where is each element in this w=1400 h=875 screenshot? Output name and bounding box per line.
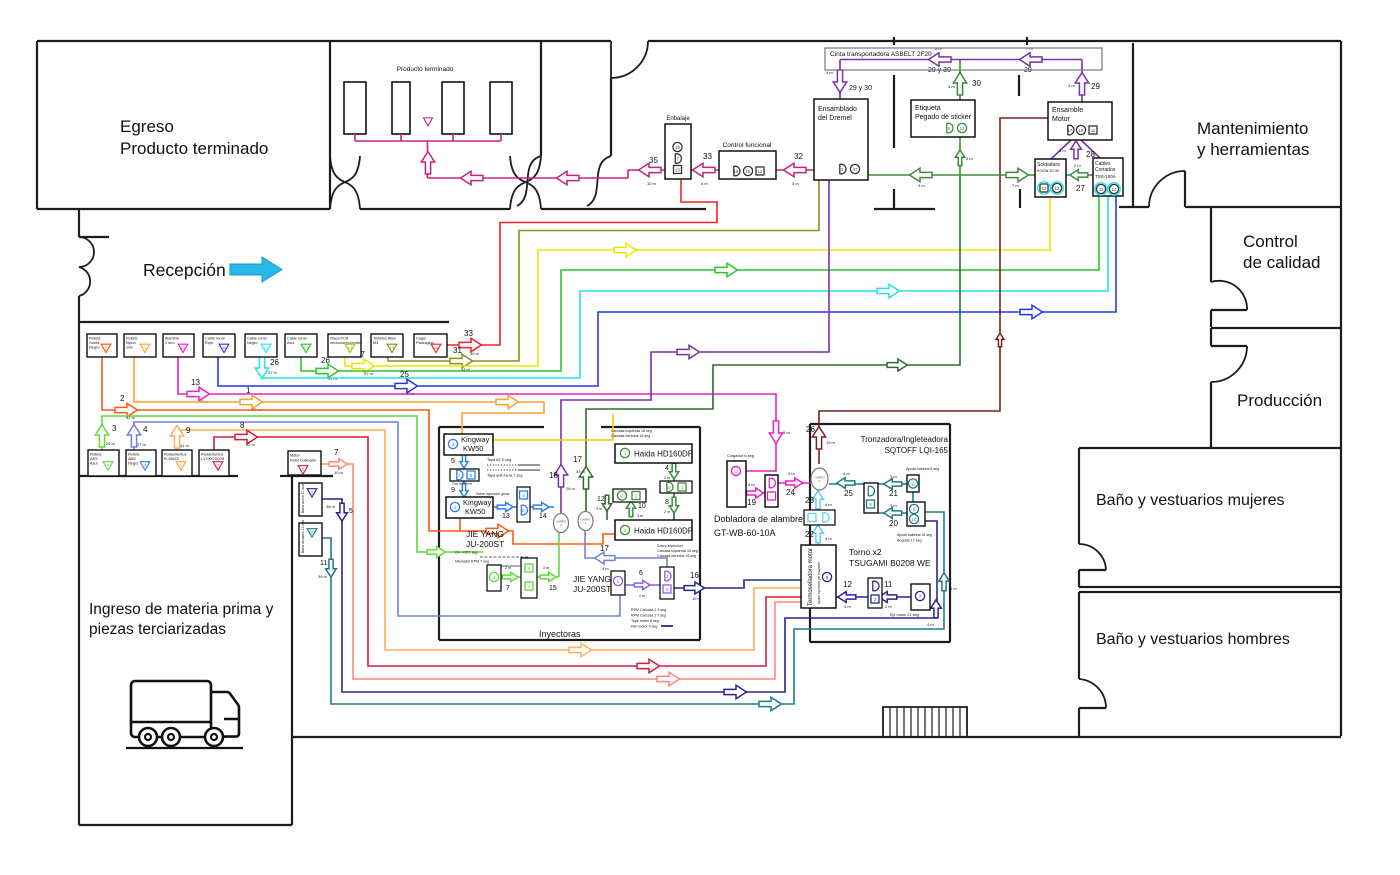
svg-text:Cajas: Cajas xyxy=(416,337,426,341)
svg-text:R-156ZZ: R-156ZZ xyxy=(164,457,180,461)
svg-text:26 m: 26 m xyxy=(566,486,576,491)
svg-text:4 m: 4 m xyxy=(927,622,934,627)
svg-text:Azul: Azul xyxy=(287,341,295,345)
svg-text:Control: Control xyxy=(1243,232,1298,251)
svg-text:Alambre: Alambre xyxy=(165,337,179,341)
svg-text:4 m: 4 m xyxy=(825,502,832,507)
svg-text:Carcasa derecha 18 seg: Carcasa derecha 18 seg xyxy=(611,434,650,438)
svg-text:Enbalaje: Enbalaje xyxy=(666,116,690,122)
svg-text:8: 8 xyxy=(665,499,669,506)
svg-text:19 m: 19 m xyxy=(826,440,836,445)
svg-text:7 m: 7 m xyxy=(1012,183,1019,188)
svg-text:10: 10 xyxy=(912,517,917,522)
svg-text:4 m: 4 m xyxy=(602,566,609,571)
svg-text:Barra acero 10 mm: Barra acero 10 mm xyxy=(301,484,305,513)
svg-text:On - Off 7 seg: On - Off 7 seg xyxy=(455,551,478,555)
svg-text:10 m: 10 m xyxy=(692,596,702,601)
svg-text:2 m: 2 m xyxy=(664,510,670,514)
svg-text:32: 32 xyxy=(794,152,803,161)
svg-text:1 mm: 1 mm xyxy=(165,341,175,345)
svg-text:16: 16 xyxy=(690,571,699,580)
svg-text:Ingreso de materia prima y: Ingreso de materia prima y xyxy=(89,601,274,618)
svg-text:Barra aluminio 12 mm: Barra aluminio 12 mm xyxy=(301,520,305,553)
svg-text:Cinta transportadora ASBELT 2F: Cinta transportadora ASBELT 2F20 xyxy=(830,51,932,58)
svg-text:38 m: 38 m xyxy=(326,504,336,509)
svg-text:Tapa 6Z 9 seg: Tapa 6Z 9 seg xyxy=(487,458,511,462)
svg-text:Sobre inyeccion goma: Sobre inyeccion goma xyxy=(476,492,510,496)
svg-text:M3: M3 xyxy=(373,341,378,345)
svg-text:Rodamientos: Rodamientos xyxy=(201,453,223,457)
svg-text:17: 17 xyxy=(600,544,609,553)
svg-text:25: 25 xyxy=(844,489,853,498)
svg-text:Negro: Negro xyxy=(128,462,138,466)
svg-text:27 m: 27 m xyxy=(137,442,147,447)
svg-text:Pellets: Pellets xyxy=(128,453,139,457)
svg-text:Tornillos Allen: Tornillos Allen xyxy=(373,337,396,341)
svg-text:Pan motor 9 seg: Pan motor 9 seg xyxy=(631,625,657,629)
svg-text:16: 16 xyxy=(434,345,439,350)
svg-text:Pellets: Pellets xyxy=(90,453,101,457)
svg-text:6 m: 6 m xyxy=(950,586,957,591)
svg-text:Egreso: Egreso xyxy=(120,117,174,136)
svg-text:Placa PCB: Placa PCB xyxy=(330,337,349,341)
svg-text:TSS-100A: TSS-100A xyxy=(1095,174,1116,179)
svg-text:L1790OSO28: L1790OSO28 xyxy=(201,457,224,461)
svg-text:2: 2 xyxy=(120,394,125,403)
svg-text:Cortados: Cortados xyxy=(1095,167,1116,173)
svg-text:Recepción: Recepción xyxy=(143,260,226,280)
svg-text:Nylon: Nylon xyxy=(126,341,136,345)
svg-text:14: 14 xyxy=(539,513,547,520)
svg-text:RPM Carcasa 1 9 seg: RPM Carcasa 1 9 seg xyxy=(631,608,666,612)
svg-text:Producción: Producción xyxy=(1237,391,1322,410)
svg-text:14: 14 xyxy=(1112,187,1117,192)
svg-text:4 m: 4 m xyxy=(918,183,925,188)
svg-text:24: 24 xyxy=(786,488,795,497)
svg-text:RPM Carcasa 2 7 seg: RPM Carcasa 2 7 seg xyxy=(631,614,666,618)
svg-text:11: 11 xyxy=(1091,128,1096,133)
svg-text:Torno x2: Torno x2 xyxy=(849,547,882,557)
svg-text:10: 10 xyxy=(181,345,186,350)
svg-text:13: 13 xyxy=(304,345,309,350)
svg-text:21: 21 xyxy=(889,489,898,498)
svg-text:Cable ronal: Cable ronal xyxy=(247,337,267,341)
svg-text:11: 11 xyxy=(320,560,327,567)
svg-text:9: 9 xyxy=(451,487,455,494)
svg-text:26: 26 xyxy=(270,358,279,367)
svg-text:Nivelador RPM 7 seg: Nivelador RPM 7 seg xyxy=(455,560,489,564)
svg-text:SQTOFF LQI-165: SQTOFF LQI-165 xyxy=(885,446,949,455)
svg-text:Ensamble: Ensamble xyxy=(1052,107,1083,114)
svg-text:3 m: 3 m xyxy=(890,474,897,479)
svg-text:25: 25 xyxy=(400,370,409,379)
svg-text:Pellets: Pellets xyxy=(126,337,137,341)
svg-text:12: 12 xyxy=(264,345,269,350)
svg-text:Carcasa derecha 18 seg: Carcasa derecha 18 seg xyxy=(657,554,696,558)
svg-text:Pegado de sticker: Pegado de sticker xyxy=(915,114,972,121)
svg-text:Haida HD160DP: Haida HD160DP xyxy=(634,527,693,536)
svg-text:Cable ronal: Cable ronal xyxy=(205,337,225,341)
svg-text:13: 13 xyxy=(191,378,200,387)
svg-text:Soldadura: Soldadura xyxy=(1037,162,1060,168)
svg-text:Tapa quita fuera: Tapa quita fuera xyxy=(452,482,473,486)
svg-text:35: 35 xyxy=(649,156,658,165)
svg-text:Motor: Motor xyxy=(1052,116,1071,123)
svg-text:2 m: 2 m xyxy=(639,594,645,598)
svg-text:27 m: 27 m xyxy=(268,370,278,375)
svg-text:KOIÓN ZD-99: KOIÓN ZD-99 xyxy=(1037,168,1059,173)
svg-text:3 m: 3 m xyxy=(948,84,955,89)
svg-text:Negro: Negro xyxy=(247,341,257,345)
svg-text:y herramientas: y herramientas xyxy=(1197,140,1309,159)
svg-text:18: 18 xyxy=(549,471,558,480)
svg-text:Pellets: Pellets xyxy=(89,337,100,341)
svg-text:3 m: 3 m xyxy=(596,507,602,511)
svg-text:17: 17 xyxy=(1068,128,1073,133)
svg-text:27: 27 xyxy=(1076,184,1085,193)
svg-text:JIE YANG: JIE YANG xyxy=(573,574,611,584)
svg-text:33: 33 xyxy=(703,152,712,161)
svg-text:19: 19 xyxy=(675,145,680,150)
svg-text:Colgador 6 seg: Colgador 6 seg xyxy=(727,453,754,458)
svg-text:2 m: 2 m xyxy=(885,604,892,609)
svg-text:Carcasa izquierda 18 seg: Carcasa izquierda 18 seg xyxy=(611,429,652,433)
svg-text:13: 13 xyxy=(1055,186,1060,191)
svg-text:23: 23 xyxy=(805,496,814,505)
svg-text:4 m: 4 m xyxy=(826,70,833,75)
svg-text:Baño y vestuarios hombres: Baño y vestuarios hombres xyxy=(1096,631,1290,648)
svg-text:13: 13 xyxy=(675,167,680,172)
svg-text:D: D xyxy=(522,508,525,513)
svg-text:4: 4 xyxy=(143,425,148,434)
svg-text:4 m: 4 m xyxy=(748,482,755,487)
svg-text:9: 9 xyxy=(186,426,191,435)
svg-text:7: 7 xyxy=(334,448,339,457)
svg-text:3 m: 3 m xyxy=(1068,83,1075,88)
svg-text:1: 1 xyxy=(246,386,251,395)
svg-text:TSUGAMI B0208 WE: TSUGAMI B0208 WE xyxy=(849,558,931,568)
svg-text:U: U xyxy=(667,485,670,490)
svg-text:13: 13 xyxy=(960,126,965,131)
svg-text:Tronzadora/Ingleteadora: Tronzadora/Ingleteadora xyxy=(861,435,949,444)
svg-text:29: 29 xyxy=(1091,82,1100,91)
svg-text:4 m: 4 m xyxy=(701,181,708,186)
svg-text:Sobre inyeccion: Sobre inyeccion xyxy=(657,544,683,548)
svg-text:KW50: KW50 xyxy=(463,444,483,453)
svg-text:12: 12 xyxy=(758,169,763,174)
svg-text:4 m: 4 m xyxy=(825,536,832,541)
svg-text:JU-200ST: JU-200ST xyxy=(573,584,611,594)
svg-text:33 m: 33 m xyxy=(576,469,586,474)
svg-text:3 m: 3 m xyxy=(783,430,790,435)
svg-text:39 m: 39 m xyxy=(318,574,328,579)
svg-text:Termoselladora motor: Termoselladora motor xyxy=(808,548,814,606)
svg-text:15: 15 xyxy=(390,345,395,350)
svg-text:30 m: 30 m xyxy=(470,351,480,356)
svg-text:Boquilla 17 seg: Boquilla 17 seg xyxy=(897,539,922,543)
svg-text:KW50: KW50 xyxy=(465,507,485,516)
svg-text:Mantenimiento: Mantenimiento xyxy=(1197,119,1309,138)
svg-text:19: 19 xyxy=(747,498,756,507)
svg-text:Cable ronal: Cable ronal xyxy=(287,337,307,341)
svg-text:2 m: 2 m xyxy=(664,476,670,480)
svg-text:42 m: 42 m xyxy=(246,442,256,447)
svg-text:Control funcional: Control funcional xyxy=(723,142,772,149)
svg-text:5: 5 xyxy=(451,458,455,465)
svg-text:33: 33 xyxy=(464,329,473,338)
svg-text:3 m: 3 m xyxy=(1059,148,1066,153)
svg-text:Eje motor 21 seg: Eje motor 21 seg xyxy=(890,613,919,617)
svg-text:piezas terciarizadas: piezas terciarizadas xyxy=(89,621,226,638)
svg-text:Rodamientos: Rodamientos xyxy=(164,453,186,457)
svg-text:4 m: 4 m xyxy=(843,471,850,476)
svg-text:del Dremel: del Dremel xyxy=(818,115,852,122)
svg-text:Carcasa izquierda 18 seg: Carcasa izquierda 18 seg xyxy=(657,549,698,553)
svg-text:4 m: 4 m xyxy=(788,471,795,476)
svg-text:16: 16 xyxy=(734,169,739,174)
svg-text:20: 20 xyxy=(889,519,898,528)
svg-text:JU-200ST: JU-200ST xyxy=(466,539,504,549)
svg-text:8: 8 xyxy=(240,421,245,430)
svg-text:Ajuste cabezal 8 seg: Ajuste cabezal 8 seg xyxy=(906,467,939,471)
svg-text:47: 47 xyxy=(853,167,858,172)
svg-text:Kingway: Kingway xyxy=(463,498,492,507)
svg-text:15: 15 xyxy=(549,585,557,592)
svg-text:26: 26 xyxy=(806,425,815,434)
svg-text:JIE YANG: JIE YANG xyxy=(466,529,504,539)
svg-text:3 m: 3 m xyxy=(890,503,897,508)
svg-text:41 m: 41 m xyxy=(180,443,190,448)
svg-text:3 m: 3 m xyxy=(844,604,851,609)
svg-text:3 m: 3 m xyxy=(966,156,973,161)
svg-text:Kingway: Kingway xyxy=(461,435,490,444)
svg-text:10 m: 10 m xyxy=(334,470,344,475)
svg-text:Negro: Negro xyxy=(89,346,99,350)
svg-text:29 m: 29 m xyxy=(106,441,116,446)
svg-text:22: 22 xyxy=(805,530,814,539)
svg-text:Inyectoras: Inyectoras xyxy=(539,629,581,639)
svg-text:2 m: 2 m xyxy=(1074,163,1081,168)
svg-text:14: 14 xyxy=(348,345,353,350)
svg-text:12: 12 xyxy=(1042,186,1047,191)
svg-text:3 m: 3 m xyxy=(792,181,799,186)
svg-text:Rotor bobinado: Rotor bobinado xyxy=(290,459,316,463)
svg-text:30: 30 xyxy=(972,79,981,88)
svg-text:3 m: 3 m xyxy=(637,514,643,518)
svg-text:5: 5 xyxy=(349,508,353,515)
svg-text:4: 4 xyxy=(665,465,669,472)
svg-text:16: 16 xyxy=(1079,128,1084,133)
svg-text:Goma: Goma xyxy=(89,341,100,345)
svg-text:11: 11 xyxy=(1099,187,1104,192)
svg-text:3 m: 3 m xyxy=(543,566,549,570)
svg-text:Baño y vestuarios mujeres: Baño y vestuarios mujeres xyxy=(1096,492,1285,509)
svg-text:Tope motor 8 seg: Tope motor 8 seg xyxy=(631,619,659,623)
svg-text:2 m: 2 m xyxy=(505,566,511,570)
svg-text:13: 13 xyxy=(502,513,510,520)
svg-text:10 m: 10 m xyxy=(647,181,657,186)
svg-text:Ensamblado: Ensamblado xyxy=(818,106,857,113)
svg-text:Ajuste cabezal 18 seg: Ajuste cabezal 18 seg xyxy=(897,533,932,537)
svg-text:Azul: Azul xyxy=(90,462,98,466)
svg-text:Producto terminado: Producto terminado xyxy=(120,139,268,158)
svg-text:de calidad: de calidad xyxy=(1243,253,1321,272)
svg-text:17: 17 xyxy=(573,455,582,464)
svg-text:12: 12 xyxy=(597,496,605,503)
svg-text:7: 7 xyxy=(506,585,510,592)
svg-text:31: 31 xyxy=(453,346,462,355)
svg-text:11: 11 xyxy=(884,580,893,589)
svg-text:29 y 30: 29 y 30 xyxy=(849,85,872,92)
svg-text:Motor: Motor xyxy=(290,454,300,458)
svg-text:Tapa quit fuera 7 seg: Tapa quit fuera 7 seg xyxy=(487,474,522,478)
svg-text:12: 12 xyxy=(734,470,738,474)
svg-text:Dobladora de alambre: Dobladora de alambre xyxy=(714,514,803,524)
svg-text:10: 10 xyxy=(638,503,646,510)
svg-text:12: 12 xyxy=(843,580,852,589)
svg-text:Gris: Gris xyxy=(126,346,133,350)
svg-text:6: 6 xyxy=(639,570,643,577)
svg-text:Ajuste a presion por troquelar: Ajuste a presion por troquelar xyxy=(817,561,821,604)
svg-text:15: 15 xyxy=(746,169,751,174)
svg-text:3: 3 xyxy=(112,424,117,433)
svg-text:GT-WB-60-10A: GT-WB-60-10A xyxy=(714,528,776,538)
svg-text:Rojo: Rojo xyxy=(205,341,213,345)
svg-text:Etiqueta: Etiqueta xyxy=(915,105,941,112)
svg-text:Producto terminado: Producto terminado xyxy=(397,66,454,73)
svg-text:11: 11 xyxy=(911,481,916,486)
svg-text:ABS: ABS xyxy=(128,457,136,461)
svg-text:Haida HD160DP: Haida HD160DP xyxy=(634,450,693,459)
svg-text:ASS: ASS xyxy=(90,457,98,461)
